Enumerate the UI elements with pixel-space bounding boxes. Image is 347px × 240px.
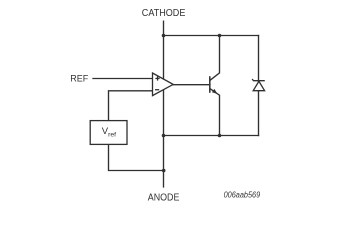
transistor Q1 — [209, 76, 211, 93]
wire: REF lead — [93, 78, 153, 80]
wire: top rail — [164, 35, 259, 37]
node: collector junction — [218, 34, 222, 38]
svg-text:CATHODE: CATHODE — [142, 8, 186, 19]
svg-text:ANODE: ANODE — [148, 193, 180, 204]
wire: collector branch — [210, 36, 220, 81]
node: cathode rail left junction — [162, 34, 166, 38]
node: anode rail left junction — [162, 134, 166, 138]
op-amp U1 — [153, 73, 174, 96]
node: emitter junction — [218, 134, 222, 138]
svg-text:REF: REF — [70, 74, 89, 84]
wire: cathode vertical main line — [163, 21, 165, 187]
svg-text:006aab569: 006aab569 — [224, 191, 261, 200]
wire: op-amp output to base — [173, 84, 210, 86]
wire: bottom rail — [164, 135, 259, 137]
node: vref return junction — [162, 169, 166, 173]
wire: Vref box bottom return — [109, 144, 164, 170]
diode D1 — [252, 79, 265, 91]
wire: inverting input lead — [109, 91, 153, 121]
wire: diode branch vertical — [258, 36, 260, 136]
transistor Q1 emitter arrow — [212, 89, 218, 94]
wire: emitter branch — [210, 89, 220, 136]
junction dots — [162, 34, 222, 173]
Vref box — [90, 121, 127, 145]
